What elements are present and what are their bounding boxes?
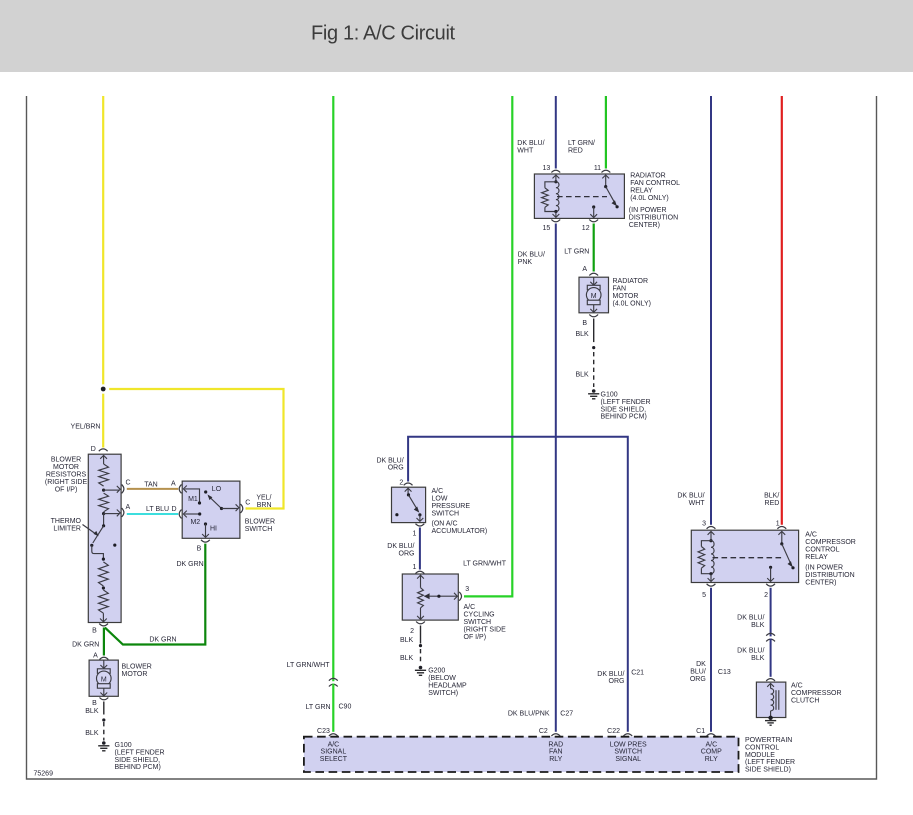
svg-text:BLK: BLK xyxy=(575,371,589,378)
relay K2 switch xyxy=(767,531,794,581)
svg-text:C90: C90 xyxy=(339,704,352,711)
svg-text:OF I/P): OF I/P) xyxy=(55,487,78,494)
clutch coil symbol xyxy=(767,683,779,717)
label LO xyxy=(212,486,222,493)
inline connector C90 xyxy=(329,678,338,686)
connector arc pin 11 xyxy=(602,170,611,172)
svg-text:(LEFT FENDER: (LEFT FENDER xyxy=(601,399,651,406)
svg-text:CLUTCH: CLUTCH xyxy=(791,697,819,704)
label DK BLU/PNK xyxy=(518,251,545,266)
pin A label switch side xyxy=(171,480,176,487)
low pressure switch symbol xyxy=(395,488,423,521)
label DK GRN horizontal xyxy=(149,637,176,644)
svg-text:A: A xyxy=(171,480,176,487)
svg-text:C22: C22 xyxy=(607,728,620,735)
svg-text:G100: G100 xyxy=(601,392,618,399)
label DK BLU/ORG mid xyxy=(387,543,414,557)
resistor pack box R1 xyxy=(88,454,121,622)
svg-text:LO: LO xyxy=(212,486,222,493)
svg-text:LT GRN/: LT GRN/ xyxy=(568,140,595,147)
connector arc pin B resistors xyxy=(99,624,108,626)
wire DK GRN to blower motor xyxy=(103,628,105,656)
label DK BLU/ORG at C21 xyxy=(597,671,624,685)
svg-text:OF I/P): OF I/P) xyxy=(464,634,487,641)
label DK BLU/ORG upper xyxy=(376,457,403,471)
svg-text:SWITCH): SWITCH) xyxy=(428,690,458,697)
wire DK BLU/ORG horizontal xyxy=(408,437,628,732)
powertrain control module box xyxy=(304,737,739,772)
label blower motor xyxy=(122,663,152,678)
svg-text:COMP: COMP xyxy=(701,749,722,756)
thermo limiter pointer arrow xyxy=(83,525,99,537)
pin 3 label cycling xyxy=(465,586,469,593)
connector arc C23 xyxy=(329,734,338,736)
wire yellow into switch C xyxy=(246,507,247,509)
svg-text:11: 11 xyxy=(594,165,601,172)
connector arc C1 xyxy=(707,734,716,736)
label LT GRN at C90 xyxy=(306,704,331,711)
svg-text:DK GRN: DK GRN xyxy=(72,641,99,648)
svg-text:SIGNAL: SIGNAL xyxy=(615,756,641,763)
svg-text:SIGNAL: SIGNAL xyxy=(321,749,347,756)
svg-text:SWITCH: SWITCH xyxy=(432,510,460,517)
svg-text:CONTROL: CONTROL xyxy=(745,744,779,751)
svg-text:B: B xyxy=(582,320,587,327)
node junction yellow xyxy=(98,384,108,394)
title bar xyxy=(0,0,913,72)
svg-text:LT GRN/WHT: LT GRN/WHT xyxy=(463,561,507,568)
relay K1 coil xyxy=(542,175,560,217)
pin D label xyxy=(91,446,96,453)
label a/c compressor clutch xyxy=(791,682,842,704)
svg-text:WHT: WHT xyxy=(689,500,706,507)
svg-text:FAN CONTROL: FAN CONTROL xyxy=(630,180,680,187)
svg-text:D: D xyxy=(172,506,177,513)
wire tap A xyxy=(104,513,119,515)
svg-text:DISTRIBUTION: DISTRIBUTION xyxy=(805,572,854,579)
svg-text:2: 2 xyxy=(764,592,768,599)
label powertrain control module xyxy=(745,737,795,774)
svg-text:A: A xyxy=(93,653,98,660)
arrow tap C xyxy=(117,486,120,493)
label on a/c accumulator xyxy=(432,520,488,535)
svg-text:TAN: TAN xyxy=(144,481,157,488)
connector arc pin A motor xyxy=(100,657,109,659)
blower motor symbol xyxy=(97,660,112,696)
connector arc C2 xyxy=(551,734,560,736)
label low pres switch signal xyxy=(610,742,647,763)
wire YEL/BRN vertical feed xyxy=(102,96,104,448)
label G200 xyxy=(428,668,467,698)
svg-text:DK BLU/: DK BLU/ xyxy=(737,648,764,655)
connector arc C22 xyxy=(623,734,632,736)
svg-text:1: 1 xyxy=(776,520,780,527)
svg-text:A/C: A/C xyxy=(805,531,817,538)
label BLK cyc 1 xyxy=(400,637,414,644)
resistor element 3b xyxy=(99,590,109,613)
label C13 xyxy=(718,669,731,676)
svg-text:B: B xyxy=(92,628,97,635)
a/c low pressure switch box S1 xyxy=(392,487,426,522)
resistor element 2 xyxy=(99,493,109,512)
svg-text:LT BLU: LT BLU xyxy=(146,506,169,513)
contact HI xyxy=(202,522,209,537)
label C23 xyxy=(317,728,330,735)
svg-text:M: M xyxy=(591,293,597,300)
svg-text:B: B xyxy=(197,545,202,552)
relay K2 dashed link xyxy=(713,557,784,559)
svg-text:RADIATOR: RADIATOR xyxy=(613,278,649,285)
switch blade LO xyxy=(208,495,224,511)
svg-text:RAD: RAD xyxy=(548,742,563,749)
svg-text:BEHIND PCM): BEHIND PCM) xyxy=(115,764,161,771)
pin A label rad motor xyxy=(582,266,587,273)
connector arc pin A switch xyxy=(179,485,181,494)
label BLK/RED xyxy=(764,493,779,508)
svg-text:PRESSURE: PRESSURE xyxy=(432,503,471,510)
pin A label motor xyxy=(93,653,98,660)
svg-text:FAN: FAN xyxy=(549,749,563,756)
svg-text:BLU/: BLU/ xyxy=(690,668,706,675)
svg-text:DK BLU/: DK BLU/ xyxy=(597,671,624,678)
svg-text:LT GRN: LT GRN xyxy=(306,704,331,711)
svg-text:SIDE SHIELD): SIDE SHIELD) xyxy=(745,767,791,774)
wire BLK dashed blower xyxy=(103,722,105,741)
resistor element 1 xyxy=(99,464,109,486)
relay K2 coil xyxy=(698,531,714,581)
svg-text:Fig 1: A/C Circuit: Fig 1: A/C Circuit xyxy=(311,23,456,45)
label DK BLU/BLK 1 xyxy=(737,614,765,628)
wire BLK/RED to relay pin 1 xyxy=(781,96,783,525)
svg-text:DISTRIBUTION: DISTRIBUTION xyxy=(629,214,678,221)
svg-text:RLY: RLY xyxy=(705,756,718,763)
svg-text:CENTER): CENTER) xyxy=(629,222,660,229)
label G100 left xyxy=(115,742,165,771)
label C22 xyxy=(607,728,620,735)
wire DK GRN from switch B xyxy=(105,544,205,645)
resistor element 3a xyxy=(99,562,109,586)
svg-text:LOW: LOW xyxy=(432,495,448,502)
wire DK BLU/ORG between switches xyxy=(419,528,421,570)
svg-text:BLK: BLK xyxy=(400,637,414,644)
connector arc clutch pin xyxy=(766,679,775,681)
ground G100 right xyxy=(588,389,599,399)
connector arc pin A xyxy=(122,508,124,517)
drawing number 75269 xyxy=(34,771,54,778)
wire DK BLU/PNK to C2 xyxy=(555,224,557,732)
thermo limiter switch xyxy=(90,514,116,561)
svg-text:ORG: ORG xyxy=(388,465,404,472)
connector arc pin C xyxy=(122,485,124,494)
label G100 right xyxy=(601,392,651,421)
svg-text:3: 3 xyxy=(702,520,706,527)
pin 2 label comp relay xyxy=(764,592,768,599)
label DK GRN left xyxy=(72,641,99,648)
label HI xyxy=(210,526,217,533)
wire BLK dashed cycling xyxy=(420,649,422,664)
svg-text:WHT: WHT xyxy=(517,148,534,155)
arrow pin D xyxy=(100,455,107,458)
svg-text:BLOWER: BLOWER xyxy=(122,663,152,670)
pin B label rad motor xyxy=(582,320,587,327)
inline connector clutch xyxy=(766,633,775,641)
label a/c compressor control relay xyxy=(805,531,856,561)
label DK GRN switch side xyxy=(176,561,203,568)
wire LT GRN/WHT vertical xyxy=(332,96,334,681)
svg-text:75269: 75269 xyxy=(34,771,54,778)
svg-text:HI: HI xyxy=(210,526,217,533)
contact LO xyxy=(204,490,207,493)
svg-text:G200: G200 xyxy=(428,668,445,675)
wire tap C xyxy=(104,489,119,491)
svg-text:SIDE SHIELD,: SIDE SHIELD, xyxy=(601,406,647,413)
wire TAN xyxy=(127,488,178,490)
pin 15 label xyxy=(543,225,551,232)
svg-text:FAN: FAN xyxy=(613,286,627,293)
cycling switch symbol xyxy=(417,575,457,619)
wire DK BLU/WHT to relay pin 13 xyxy=(555,96,557,169)
svg-text:RADIATOR: RADIATOR xyxy=(630,173,666,180)
label C21 xyxy=(631,669,644,676)
svg-text:2: 2 xyxy=(410,628,414,635)
connector arc pin C switch xyxy=(241,504,243,513)
svg-text:SWITCH: SWITCH xyxy=(614,749,642,756)
pin A label xyxy=(126,504,131,511)
wire DK BLU/ORG pin5 to C1 xyxy=(710,588,712,732)
label DK BLU/WHT relay xyxy=(517,140,544,155)
label in power distribution center 2 xyxy=(805,565,854,587)
svg-text:CONTROL: CONTROL xyxy=(805,546,839,553)
svg-text:MOTOR: MOTOR xyxy=(53,464,79,471)
pin 5 label comp relay xyxy=(702,592,706,599)
svg-text:COMPRESSOR: COMPRESSOR xyxy=(805,539,856,546)
svg-text:SIDE SHIELD,: SIDE SHIELD, xyxy=(115,757,161,764)
svg-text:B: B xyxy=(92,700,97,707)
label blower motor resistors xyxy=(45,457,88,494)
svg-text:(RIGHT SIDE: (RIGHT SIDE xyxy=(45,479,88,486)
pin 2 label cycling xyxy=(410,628,414,635)
wire BLK rad motor xyxy=(593,319,595,343)
svg-text:BRN: BRN xyxy=(257,502,272,509)
svg-text:DK BLU/: DK BLU/ xyxy=(387,543,414,550)
svg-text:BLK: BLK xyxy=(400,655,414,662)
svg-text:BLK: BLK xyxy=(85,708,99,715)
connector arc pin 5 comp xyxy=(707,584,716,586)
svg-text:POWERTRAIN: POWERTRAIN xyxy=(745,737,792,744)
label DK BLU/PNK at C27 xyxy=(508,711,550,718)
svg-text:HEADLAMP: HEADLAMP xyxy=(428,683,467,690)
wire BLK dashed rad xyxy=(593,352,595,387)
label a/c comp rly xyxy=(701,742,722,763)
label LT BLU xyxy=(146,506,169,513)
node R1 tap A xyxy=(102,512,105,515)
connector arc pin 15 xyxy=(551,220,560,222)
arrow pin B xyxy=(100,619,107,622)
svg-text:(ON A/C: (ON A/C xyxy=(432,520,458,527)
label DK BLU/BLK 2 xyxy=(737,648,765,662)
svg-text:C2: C2 xyxy=(539,728,548,735)
svg-text:BLK: BLK xyxy=(751,655,765,662)
wire LT BLU xyxy=(127,513,178,515)
label a/c signal select xyxy=(320,742,348,763)
wire LT GRN/WHT from cycling switch xyxy=(464,96,512,596)
svg-text:3: 3 xyxy=(465,586,469,593)
svg-text:RELAY: RELAY xyxy=(630,188,653,195)
svg-text:M1: M1 xyxy=(188,496,198,503)
connector arc pin D xyxy=(99,449,108,451)
label radiator fan motor xyxy=(613,278,652,308)
svg-text:LIMITER: LIMITER xyxy=(53,526,81,533)
svg-text:(BELOW: (BELOW xyxy=(428,675,456,682)
connector arc pin D switch xyxy=(179,510,181,519)
svg-text:ORG: ORG xyxy=(690,676,706,683)
svg-text:2: 2 xyxy=(399,480,403,487)
wire DK BLU/BLK lower xyxy=(770,639,772,677)
label C90 xyxy=(339,704,352,711)
pin D label switch side xyxy=(172,506,177,513)
svg-text:ACCUMULATOR): ACCUMULATOR) xyxy=(432,528,488,535)
connector arc pin 2 LP xyxy=(404,483,413,485)
pin C label xyxy=(126,480,131,487)
connector arc pin 1 comp xyxy=(777,527,786,529)
label LT GRN/WHT lower xyxy=(287,662,331,669)
connector arc pin B rad motor xyxy=(589,315,598,317)
label DK BLU/WHT comp relay xyxy=(677,493,705,508)
svg-text:G100: G100 xyxy=(115,742,132,749)
pin 11 label xyxy=(594,165,601,172)
pin 2 label LP switch xyxy=(399,480,403,487)
label TAN xyxy=(144,481,157,488)
svg-text:(RIGHT SIDE: (RIGHT SIDE xyxy=(464,627,507,634)
connector arc pin 3 comp xyxy=(707,527,716,529)
splice node rad BLK xyxy=(592,346,595,349)
pin 1 label cycling switch xyxy=(412,564,416,571)
label DK BLU/ORG at C13 xyxy=(690,661,706,683)
svg-text:PNK: PNK xyxy=(518,259,533,266)
svg-text:CENTER): CENTER) xyxy=(805,580,836,587)
connector arc pin B switch xyxy=(201,540,210,542)
label LT GRN xyxy=(564,249,589,256)
svg-text:ORG: ORG xyxy=(609,678,625,685)
svg-text:M: M xyxy=(101,676,107,683)
a/c compressor clutch box L1 xyxy=(756,682,785,717)
svg-text:BLK: BLK xyxy=(575,331,589,338)
svg-text:RELAY: RELAY xyxy=(805,554,828,561)
svg-text:SWITCH: SWITCH xyxy=(464,619,492,626)
label YEL/BRN at switch xyxy=(256,495,271,509)
connector arc pin 1 LP xyxy=(416,524,425,526)
switch M2 contact xyxy=(183,511,201,518)
wire LT GRN/RED to relay pin 11 xyxy=(605,96,607,169)
svg-text:LT GRN/WHT: LT GRN/WHT xyxy=(287,662,331,669)
svg-text:MOTOR: MOTOR xyxy=(122,671,148,678)
svg-text:DK GRN: DK GRN xyxy=(149,637,176,644)
svg-text:LT GRN: LT GRN xyxy=(564,249,589,256)
svg-text:D: D xyxy=(91,446,96,453)
svg-text:MOTOR: MOTOR xyxy=(613,293,639,300)
connector arc pin 13 xyxy=(551,170,560,172)
arrow tap A xyxy=(117,510,120,517)
relay K1 dashed link xyxy=(557,196,607,198)
node mid xyxy=(102,586,105,589)
svg-text:(LEFT FENDER: (LEFT FENDER xyxy=(745,759,795,766)
a/c cycling switch box S2 xyxy=(402,574,458,620)
svg-text:1: 1 xyxy=(412,531,416,538)
label BLK rad 1 xyxy=(575,331,589,338)
label BLK rad 2 xyxy=(575,371,589,378)
label a/c cycling switch xyxy=(464,604,507,641)
connector arc pin 12 xyxy=(589,220,598,222)
svg-text:(LEFT FENDER: (LEFT FENDER xyxy=(115,749,165,756)
svg-text:A/C: A/C xyxy=(328,742,340,749)
connector arc pin 2 cycling xyxy=(416,622,425,624)
wire stem bottom xyxy=(102,613,104,621)
svg-text:BLK/: BLK/ xyxy=(764,493,779,500)
svg-text:DK BLU/PNK: DK BLU/PNK xyxy=(508,711,550,718)
svg-text:RED: RED xyxy=(765,500,780,507)
svg-text:5: 5 xyxy=(702,592,706,599)
title text xyxy=(311,23,456,45)
svg-text:A: A xyxy=(582,266,587,273)
svg-text:CYCLING: CYCLING xyxy=(464,612,495,619)
label M2 xyxy=(190,519,200,526)
svg-text:RLY: RLY xyxy=(549,756,562,763)
pin 13 label xyxy=(543,165,551,172)
label BLK cyc 2 xyxy=(400,655,414,662)
wire BLK blower xyxy=(103,702,105,715)
wire LT GRN relay to motor xyxy=(593,224,595,272)
wire stem top xyxy=(103,456,105,464)
svg-text:YEL/BRN: YEL/BRN xyxy=(71,424,101,431)
wire BLK cycling xyxy=(420,626,422,644)
a/c compressor control relay box K2 xyxy=(691,530,798,582)
wire yellow horizontal branch xyxy=(109,389,283,509)
radiator fan motor box M2 xyxy=(579,277,609,313)
svg-text:(4.0L ONLY): (4.0L ONLY) xyxy=(613,301,652,308)
label BLK 1 xyxy=(85,708,99,715)
diagram border frame xyxy=(27,96,877,779)
svg-text:BEHIND PCM): BEHIND PCM) xyxy=(601,414,647,421)
svg-text:DK: DK xyxy=(696,661,706,668)
pin C label switch xyxy=(245,499,250,506)
ground G200 xyxy=(415,666,426,676)
connector arc pin 1 cycling xyxy=(416,571,425,573)
svg-text:DK BLU/: DK BLU/ xyxy=(517,140,544,147)
ground G100 left xyxy=(98,741,109,751)
svg-text:C: C xyxy=(245,499,250,506)
svg-text:A/C: A/C xyxy=(432,488,444,495)
svg-text:A/C: A/C xyxy=(464,604,476,611)
pin B label motor xyxy=(92,700,97,707)
svg-text:C27: C27 xyxy=(560,711,573,718)
label BLK 2 xyxy=(85,730,99,737)
blower motor box M1 xyxy=(89,660,118,696)
svg-text:DK BLU/: DK BLU/ xyxy=(376,457,403,464)
svg-text:DK BLU/: DK BLU/ xyxy=(737,614,764,621)
relay K1 switch xyxy=(590,175,618,218)
label M1 xyxy=(188,496,198,503)
switch common wire to C xyxy=(222,504,240,511)
pin B label xyxy=(92,628,97,635)
svg-text:A: A xyxy=(126,504,131,511)
svg-text:(IN POWER: (IN POWER xyxy=(805,565,843,572)
label thermo limiter xyxy=(51,518,82,533)
svg-text:RESISTORS: RESISTORS xyxy=(46,472,87,479)
connector arc pin B motor xyxy=(100,698,109,700)
connector arc pin 3 cycling xyxy=(459,592,461,601)
splice node blower BLK xyxy=(102,718,105,721)
pin 12 label xyxy=(582,225,590,232)
